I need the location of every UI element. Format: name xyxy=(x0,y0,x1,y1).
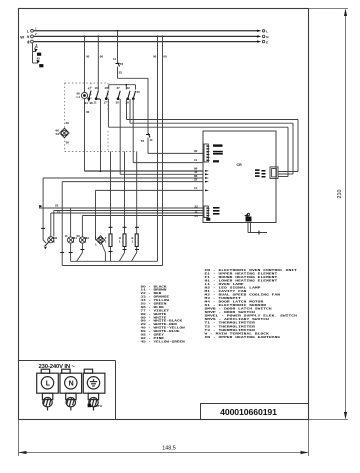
svg-text:210: 210 xyxy=(337,190,343,199)
svg-text:11: 11 xyxy=(150,138,154,142)
svg-text:M3 - TURNSPIT: M3 - TURNSPIT xyxy=(205,297,242,300)
dimension 210 right side xyxy=(309,9,349,420)
svg-text:S1 - ELECTRONIC SENSOR: S1 - ELECTRONIC SENSOR xyxy=(205,305,267,308)
switch drop long to CR wire y174 xyxy=(120,99,203,174)
wire loop 1 over CR box xyxy=(127,99,299,172)
legend left column: wire colours xyxy=(141,286,186,344)
svg-text:SMVEL - POWER SUPPLY ELEK. SWI: SMVEL - POWER SUPPLY ELEK. SWITCH xyxy=(205,315,298,318)
switch SMVB contact 2 xyxy=(127,91,130,100)
wire loop 3 over CR box xyxy=(108,99,288,177)
svg-text:400010660191: 400010660191 xyxy=(220,407,277,417)
CR wire y181.6 to x62 xyxy=(62,182,203,266)
switch SMVS (auxiliary) xyxy=(88,91,91,102)
svg-text:22: 22 xyxy=(55,203,59,207)
motor M1 (cavity fan) xyxy=(68,237,74,243)
svg-text:N: N xyxy=(266,35,269,39)
svg-text:T2: T2 xyxy=(141,139,145,143)
terminal W unit 1 (L) xyxy=(37,369,59,410)
svg-text:94: 94 xyxy=(85,101,89,105)
drop from N bus to oven lamp L1 xyxy=(84,36,86,38)
svg-text:00: 00 xyxy=(86,55,90,59)
svg-text:45: 45 xyxy=(37,57,41,61)
lamp L1 lower wire to junction xyxy=(85,99,101,172)
svg-text:T1 - THERMOLIMITER: T1 - THERMOLIMITER xyxy=(205,322,256,325)
svg-text:00 - BLACK: 00 - BLACK xyxy=(141,286,168,289)
svg-text:66 - BLUE: 66 - BLUE xyxy=(141,306,165,309)
wire loop 2 over CR box xyxy=(130,99,293,174)
svg-text:CR - ELECTRONIC OVEN CONTROL U: CR - ELECTRONIC OVEN CONTROL UNIT xyxy=(205,269,298,272)
svg-text:33 - ORANGE: 33 - ORANGE xyxy=(141,296,170,299)
dashed control-panel box xyxy=(65,83,137,152)
terminal W unit 3 (earth) xyxy=(83,369,105,410)
svg-text:L: L xyxy=(46,381,51,388)
svg-text:52: 52 xyxy=(127,86,131,90)
svg-text:45 - YELLOW-GREEN: 45 - YELLOW-GREEN xyxy=(141,341,185,344)
earth glyph in circle xyxy=(90,379,97,386)
drop from N bus to switch SMVEL xyxy=(97,36,99,38)
svg-text:1: 1 xyxy=(73,240,75,244)
switch SMVP contact 2 xyxy=(132,91,135,100)
LED signal lamp H2 (diamond) xyxy=(96,236,105,245)
svg-text:L: L xyxy=(27,29,29,33)
svg-text:L: L xyxy=(266,30,268,34)
svg-text:M1 - CAVITY FAN: M1 - CAVITY FAN xyxy=(205,290,248,293)
svg-text:T2 - THERMOLIMITER: T2 - THERMOLIMITER xyxy=(205,326,256,329)
svg-text:11: 11 xyxy=(57,210,61,214)
svg-text:55 - GREEN: 55 - GREEN xyxy=(141,303,167,306)
thermolimiter T2 xyxy=(146,133,150,138)
CR wire y190.4 to x95.5 xyxy=(96,190,204,240)
switch SMVP (door) xyxy=(117,91,120,100)
svg-text:N: N xyxy=(27,35,30,39)
svg-text:E: E xyxy=(266,40,268,44)
svg-text:1: 1 xyxy=(95,243,97,247)
svg-text:45: 45 xyxy=(35,45,39,49)
svg-text:00: 00 xyxy=(66,121,70,125)
svg-text:2: 2 xyxy=(35,32,37,36)
motor M2 (dual speed cooling fan) xyxy=(48,237,54,243)
svg-text:148,5: 148,5 xyxy=(162,446,176,452)
earth symbol 1 xyxy=(34,45,41,56)
svg-text:69 - WHITE-BLUE: 69 - WHITE-BLUE xyxy=(141,330,181,333)
svg-text:00: 00 xyxy=(86,110,90,114)
svg-text:L1: L1 xyxy=(77,95,81,99)
T2 wire to CR pin xyxy=(148,138,203,154)
svg-text:17: 17 xyxy=(104,101,108,105)
svg-text:11: 11 xyxy=(113,57,117,61)
long vertical from N bus x162 xyxy=(162,36,164,38)
svg-text:11: 11 xyxy=(65,234,69,238)
svg-text:1: 1 xyxy=(35,27,37,31)
svg-text:88 - WHITE: 88 - WHITE xyxy=(141,313,168,316)
supply hook at left of bundle xyxy=(40,205,43,208)
CR middle wires group xyxy=(85,170,204,172)
dimension 148,5 bottom xyxy=(19,420,309,457)
svg-text:29 - WHITE-RED: 29 - WHITE-RED xyxy=(141,324,178,327)
bus right terminals xyxy=(262,30,264,43)
terminal W unit 2 (N) xyxy=(60,369,82,410)
svg-text:1: 1 xyxy=(85,240,87,244)
CR left pin connector upper xyxy=(204,144,208,162)
svg-text:00: 00 xyxy=(66,141,70,145)
svg-text:49 - WHITE-YELLOW: 49 - WHITE-YELLOW xyxy=(141,327,186,330)
svg-text:11: 11 xyxy=(94,101,97,105)
svg-text:CR: CR xyxy=(237,163,243,167)
svg-text:46: 46 xyxy=(105,86,109,90)
thermolimiter T3 xyxy=(116,62,120,67)
svg-text:10: 10 xyxy=(95,86,99,90)
svg-text:22: 22 xyxy=(195,205,199,209)
svg-text:1: 1 xyxy=(105,240,107,244)
bracket above switches xyxy=(109,85,136,90)
electronic oven control unit CR xyxy=(203,131,276,223)
svg-text:11: 11 xyxy=(195,209,198,213)
CR wire y178 to x43 xyxy=(43,178,203,240)
svg-text:92 - PINK: 92 - PINK xyxy=(141,337,165,340)
svg-text:E1 - UPPER HEATING ELEMENT: E1 - UPPER HEATING ELEMENT xyxy=(205,273,278,276)
svg-text:50: 50 xyxy=(137,90,141,94)
long vertical from N bus x157 xyxy=(157,36,159,38)
M2 arrow + lower diagonal xyxy=(45,242,49,246)
earthing branch below W xyxy=(33,43,39,63)
svg-text:09 - WHITE-BLACK: 09 - WHITE-BLACK xyxy=(141,320,183,323)
svg-text:W: W xyxy=(20,34,24,39)
svg-text:F1 - ROUND HEATING ELEMENT: F1 - ROUND HEATING ELEMENT xyxy=(205,276,278,279)
svg-text:11: 11 xyxy=(194,186,198,190)
svg-text:98 - GREY: 98 - GREY xyxy=(141,334,165,337)
svg-text:T3: T3 xyxy=(120,62,124,66)
motor M3 (turnspit) xyxy=(79,237,85,243)
EARTH label xyxy=(88,404,91,408)
svg-text:IN - UPPER HEATING EARTHING: IN - UPPER HEATING EARTHING xyxy=(205,336,281,339)
bus L xyxy=(34,30,259,32)
svg-text:00: 00 xyxy=(195,214,199,218)
heating element E1 xyxy=(135,234,138,247)
svg-text:T3 - THERMOLIMITER: T3 - THERMOLIMITER xyxy=(205,329,256,332)
svg-text:SMVS - AUXILIARY SWITCH: SMVS - AUXILIARY SWITCH xyxy=(205,319,270,322)
H2 wires xyxy=(96,240,106,261)
connector J1 right of CR xyxy=(270,167,278,179)
svg-text:00: 00 xyxy=(77,234,81,238)
svg-text:2: 2 xyxy=(53,240,55,244)
svg-text:30: 30 xyxy=(116,101,120,105)
svg-text:27: 27 xyxy=(117,86,121,90)
svg-text:EARTH: EARTH xyxy=(92,404,102,408)
svg-text:22 - RED: 22 - RED xyxy=(141,293,163,296)
svg-text:1: 1 xyxy=(132,240,134,244)
svg-text:M2 - DUAL SPEED COOLING FAN: M2 - DUAL SPEED COOLING FAN xyxy=(205,294,281,297)
svg-text:L1 - OVEN LAMP: L1 - OVEN LAMP xyxy=(205,283,245,286)
svg-text:99 - WHITE: 99 - WHITE xyxy=(141,317,168,320)
svg-text:H2 - LED SIGNAL LAMP: H2 - LED SIGNAL LAMP xyxy=(205,287,262,290)
svg-text:90: 90 xyxy=(194,149,198,153)
heating element H1 xyxy=(123,234,126,247)
svg-text:S1: S1 xyxy=(56,132,60,136)
switch SMVB (door latch) xyxy=(105,91,108,100)
svg-text:H1 - LOWER HEATING ELEMENT: H1 - LOWER HEATING ELEMENT xyxy=(205,280,278,283)
sensor S1 lamp symbol (diamond) on panel edge xyxy=(60,128,70,138)
main terminal block W (left) xyxy=(31,29,34,43)
svg-text:N: N xyxy=(69,381,74,388)
door latch motor M4 under CR xyxy=(244,214,252,222)
switch drop to CR wire y162 xyxy=(133,99,203,163)
switch SMVEL (power supply) xyxy=(95,91,100,100)
svg-text:M4 - DOOR LATCH MOTOR: M4 - DOOR LATCH MOTOR xyxy=(205,301,264,304)
svg-text:1: 1 xyxy=(119,240,121,244)
svg-text:00: 00 xyxy=(153,55,157,59)
earth symbol 2 xyxy=(36,57,43,68)
svg-text:11 - BROWN: 11 - BROWN xyxy=(141,289,167,292)
svg-text:22: 22 xyxy=(119,71,123,75)
svg-text:00: 00 xyxy=(100,55,104,59)
svg-text:L: L xyxy=(95,235,97,239)
part number box xyxy=(201,404,309,420)
230-240V terminal panel xyxy=(19,361,116,420)
oven lamp L1 (circle) xyxy=(81,92,87,98)
heating element F1 xyxy=(109,234,112,247)
svg-text:77 - VIOLET: 77 - VIOLET xyxy=(141,310,170,313)
M2 top wire xyxy=(50,213,52,237)
T3 wire to T2 xyxy=(118,67,149,134)
border frame xyxy=(19,9,309,420)
bus E xyxy=(34,41,259,43)
svg-text:SMVP - DOOR SWITCH: SMVP - DOOR SWITCH xyxy=(205,312,256,315)
svg-text:47: 47 xyxy=(88,86,92,90)
bus N xyxy=(34,35,259,37)
svg-text:11: 11 xyxy=(194,158,198,162)
svg-text:W - MAIN TERMINAL BLOCK: W - MAIN TERMINAL BLOCK xyxy=(205,333,270,336)
M2 second wire xyxy=(53,211,55,237)
switch drop x100 to junction y171 and CR wire xyxy=(101,99,204,171)
svg-text:44 - YELLOW: 44 - YELLOW xyxy=(141,299,170,302)
svg-text:SMVB - DOOR LATCH SWITCH: SMVB - DOOR LATCH SWITCH xyxy=(205,308,273,311)
drop from L bus through T3 xyxy=(117,30,119,32)
CR bottom bundle 4 wires xyxy=(42,208,203,216)
legend right column: components xyxy=(205,269,298,339)
svg-text:00: 00 xyxy=(164,55,168,59)
